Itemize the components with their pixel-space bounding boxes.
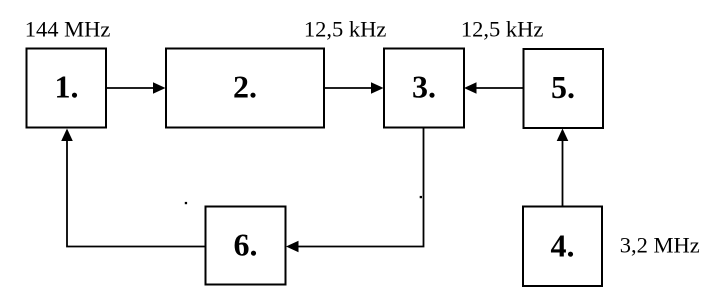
wire block4 to block5 [557, 129, 569, 207]
svg-text:144 MHz: 144 MHz [25, 17, 111, 42]
svg-text:12,5 kHz: 12,5 kHz [461, 17, 544, 42]
svg-text:2.: 2. [233, 69, 257, 105]
block 2 [166, 49, 324, 128]
svg-text:3.: 3. [412, 69, 436, 105]
block 1 [27, 49, 107, 128]
svg-text:12,5 kHz: 12,5 kHz [304, 16, 387, 41]
block 3 [384, 49, 464, 128]
wire block3 to block6 [286, 128, 424, 253]
svg-text:4.: 4. [551, 227, 575, 263]
wire block5 to block3 [464, 82, 523, 94]
svg-text:6.: 6. [234, 227, 258, 263]
block 5 [524, 49, 604, 128]
svg-text:1.: 1. [55, 69, 79, 105]
svg-text:5.: 5. [551, 69, 575, 105]
block 4 [523, 207, 602, 287]
stray dot near wire from block3 [420, 196, 422, 198]
block 6 [206, 207, 286, 285]
wire block2 to block3 [324, 82, 384, 94]
wire block6 to block1 [61, 129, 205, 247]
wire block1 to block2 [106, 82, 166, 94]
svg-text:3,2 MHz: 3,2 MHz [620, 232, 700, 257]
stray dot near block6 [185, 202, 187, 204]
